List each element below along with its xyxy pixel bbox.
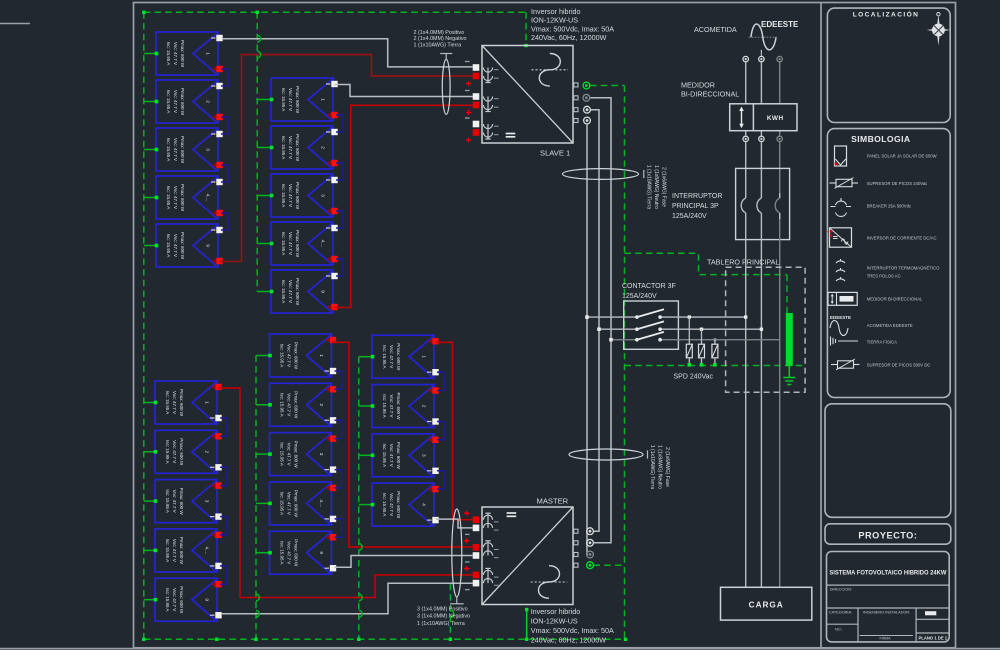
svg-text:Vmax: 500Vdc, Imax: 50A: Vmax: 500Vdc, Imax: 50A <box>531 24 614 33</box>
svg-text:Pmax: 600 W: Pmax: 600 W <box>180 232 185 260</box>
svg-text:BI-DIRECCIONAL: BI-DIRECCIONAL <box>681 90 739 99</box>
svg-text:Isc: 15.95 A: Isc: 15.95 A <box>166 234 171 258</box>
svg-text:+: + <box>826 230 828 234</box>
svg-text:ACOMETIDA: ACOMETIDA <box>694 25 737 34</box>
svg-text:Voc: 47.7 V: Voc: 47.7 V <box>288 136 293 159</box>
svg-text:Isc: 15.95 A: Isc: 15.95 A <box>281 88 286 112</box>
svg-text:Isc: 15.95 A: Isc: 15.95 A <box>165 440 170 464</box>
svg-text:SISTEMA FOTOVOLTAICO HIBRIDO 2: SISTEMA FOTOVOLTAICO HIBRIDO 24KW <box>829 570 947 577</box>
svg-text:3 (1x4.0MM) Positivo: 3 (1x4.0MM) Positivo <box>417 606 468 612</box>
svg-text:Pmax: 600 W: Pmax: 600 W <box>396 392 401 420</box>
svg-text:2: 2 <box>321 146 326 149</box>
svg-text:1 (1x8AWG) Neutro: 1 (1x8AWG) Neutro <box>653 165 659 209</box>
svg-text:Isc: 15.95 A: Isc: 15.95 A <box>166 186 171 210</box>
svg-text:Voc: 47.7 V: Voc: 47.7 V <box>288 88 293 111</box>
svg-text:Isc: 15.95 A: Isc: 15.95 A <box>280 393 285 417</box>
svg-text:Voc: 47.7 V: Voc: 47.7 V <box>389 345 394 368</box>
svg-text:1: 1 <box>319 354 324 357</box>
svg-text:LOCALIZACIÓN: LOCALIZACIÓN <box>853 10 920 19</box>
svg-text:Voc: 47.7 V: Voc: 47.7 V <box>172 440 177 463</box>
svg-text:Voc: 47.7 V: Voc: 47.7 V <box>173 138 178 161</box>
svg-text:4: 4 <box>422 503 427 506</box>
svg-text:Isc: 15.95 A: Isc: 15.95 A <box>281 280 286 304</box>
svg-text:Pmax: 600 W: Pmax: 600 W <box>295 230 300 258</box>
svg-text:Pmax: 600 W: Pmax: 600 W <box>179 438 184 466</box>
svg-text:Voc: 47.7 V: Voc: 47.7 V <box>172 539 177 562</box>
svg-text:2 (1x6AWG) Fase: 2 (1x6AWG) Fase <box>660 167 666 207</box>
svg-text:Vmax: 500Vdc, Imax: 50A: Vmax: 500Vdc, Imax: 50A <box>531 626 614 635</box>
svg-text:Pmax: 600 W: Pmax: 600 W <box>179 586 184 614</box>
svg-text:3 (1x4.0MM) Negativo: 3 (1x4.0MM) Negativo <box>417 614 470 620</box>
svg-text:Voc: 47.7 V: Voc: 47.7 V <box>288 232 293 255</box>
svg-text:Pmax: 600 W: Pmax: 600 W <box>179 389 184 417</box>
svg-text:Pmax: 600 W: Pmax: 600 W <box>295 86 300 114</box>
svg-text:Voc: 47.7 V: Voc: 47.7 V <box>173 234 178 257</box>
svg-text:Isc: 15.95 A: Isc: 15.95 A <box>281 136 286 160</box>
svg-text:Voc: 47.7 V: Voc: 47.7 V <box>288 280 293 303</box>
svg-text:EDEESTE: EDEESTE <box>830 315 851 320</box>
svg-text:Isc: 15.95 A: Isc: 15.95 A <box>382 345 387 369</box>
svg-text:Voc: 47.7 V: Voc: 47.7 V <box>287 344 292 367</box>
svg-text:Voc: 47.7 V: Voc: 47.7 V <box>287 541 292 564</box>
svg-text:PANEL SOLAR JA SOLAR DE 600W: PANEL SOLAR JA SOLAR DE 600W <box>867 154 937 159</box>
svg-text:4....: 4.... <box>319 499 324 507</box>
svg-text:Isc: 15.95 A: Isc: 15.95 A <box>166 42 171 66</box>
svg-text:Voc: 47.7 V: Voc: 47.7 V <box>389 394 394 417</box>
svg-text:Voc: 47.7 V: Voc: 47.7 V <box>172 490 177 513</box>
svg-text:DIRECCION:: DIRECCION: <box>830 588 852 592</box>
svg-text:1: 1 <box>422 355 427 358</box>
svg-text:3: 3 <box>422 454 427 457</box>
svg-text:TABLERO PRINCIPAL: TABLERO PRINCIPAL <box>707 258 779 267</box>
svg-text:Isc: 15.95 A: Isc: 15.95 A <box>280 442 285 466</box>
svg-text:NO.:: NO.: <box>835 627 843 631</box>
svg-text:2 (1x4.0MM) Negativo: 2 (1x4.0MM) Negativo <box>414 36 467 42</box>
svg-text:2: 2 <box>206 100 211 103</box>
svg-text:INGENIERO INSTALADOR:: INGENIERO INSTALADOR: <box>863 610 910 614</box>
svg-text:Pmax: 600 W: Pmax: 600 W <box>180 88 185 116</box>
svg-text:Isc: 15.95 A: Isc: 15.95 A <box>382 444 387 468</box>
svg-text:Isc: 15.95 A: Isc: 15.95 A <box>165 539 170 563</box>
svg-text:1: 1 <box>205 401 210 404</box>
svg-text:CONTACTOR 3F: CONTACTOR 3F <box>622 283 676 290</box>
svg-text:INTERRUPTOR TERMOMAGNÉTICO: INTERRUPTOR TERMOMAGNÉTICO <box>867 266 940 271</box>
svg-text:KWH: KWH <box>767 115 784 122</box>
svg-text:Isc: 15.95 A: Isc: 15.95 A <box>281 184 286 208</box>
svg-text:Voc: 47.7 V: Voc: 47.7 V <box>173 42 178 65</box>
svg-text:TRES POLOS AC: TRES POLOS AC <box>867 274 901 279</box>
svg-text:4....: 4.... <box>321 240 326 248</box>
svg-text:1 (1x10AWG) Tierra: 1 (1x10AWG) Tierra <box>645 165 651 209</box>
svg-text:Pmax: 600 W: Pmax: 600 W <box>295 182 300 210</box>
svg-text:CATEGORIA:: CATEGORIA: <box>829 610 852 614</box>
svg-text:PLANO 1 DE 1: PLANO 1 DE 1 <box>919 635 948 640</box>
svg-text:Isc: 15.95 A: Isc: 15.95 A <box>166 90 171 114</box>
svg-text:4....: 4.... <box>205 546 210 554</box>
svg-text:ACOMETIDA EDEESTE: ACOMETIDA EDEESTE <box>867 323 913 328</box>
svg-text:Inversor hibrido: Inversor hibrido <box>531 607 581 616</box>
svg-text:3: 3 <box>206 148 211 151</box>
svg-text:3: 3 <box>205 500 210 503</box>
svg-text:MASTER: MASTER <box>537 496 569 505</box>
svg-text:4....: 4.... <box>206 194 211 202</box>
svg-text:INTERRUPTOR: INTERRUPTOR <box>672 193 722 200</box>
svg-text:INVERSOR DE CORRIENTE DC/AC: INVERSOR DE CORRIENTE DC/AC <box>867 236 937 241</box>
svg-text:1 (1x8AWG) Neutro: 1 (1x8AWG) Neutro <box>656 445 662 489</box>
svg-text:2: 2 <box>422 405 427 408</box>
svg-text:Voc: 47.7 V: Voc: 47.7 V <box>173 186 178 209</box>
svg-text:FIRMA: FIRMA <box>880 637 892 641</box>
svg-text:1: 1 <box>321 98 326 101</box>
svg-text:Pmax: 600 W: Pmax: 600 W <box>180 136 185 164</box>
svg-text:240Vac, 60Hz, 12000W: 240Vac, 60Hz, 12000W <box>531 636 607 645</box>
svg-text:Pmax: 600 W: Pmax: 600 W <box>295 278 300 306</box>
svg-text:2 (1x4.0MM) Positivo: 2 (1x4.0MM) Positivo <box>414 30 465 36</box>
svg-text:9: 9 <box>206 244 211 247</box>
svg-text:1 (1x10AWG) Tierra: 1 (1x10AWG) Tierra <box>414 43 462 49</box>
svg-text:MEDIDOR BI-DIRECCIONAL: MEDIDOR BI-DIRECCIONAL <box>867 297 923 302</box>
svg-text:125A/240V: 125A/240V <box>622 293 657 300</box>
svg-text:Voc: 47.7 V: Voc: 47.7 V <box>173 90 178 113</box>
svg-text:Voc: 47.7 V: Voc: 47.7 V <box>288 184 293 207</box>
svg-text:Isc: 15.95 A: Isc: 15.95 A <box>165 391 170 415</box>
svg-text:SUPRESOR DE PICOS 500V DC: SUPRESOR DE PICOS 500V DC <box>867 363 931 368</box>
svg-text:Voc: 47.7 V: Voc: 47.7 V <box>172 588 177 611</box>
svg-text:Isc: 15.95 A: Isc: 15.95 A <box>382 493 387 517</box>
svg-text:Pmax: 600 W: Pmax: 600 W <box>180 40 185 68</box>
svg-text:1 (1x10AWG) Tierra: 1 (1x10AWG) Tierra <box>417 621 465 627</box>
svg-text:Voc: 47.7 V: Voc: 47.7 V <box>172 391 177 414</box>
svg-text:Pmax: 600 W: Pmax: 600 W <box>294 539 299 567</box>
svg-text:Pmax: 600 W: Pmax: 600 W <box>294 490 299 518</box>
svg-text:9: 9 <box>321 290 326 293</box>
svg-text:Voc: 47.7 V: Voc: 47.7 V <box>287 492 292 515</box>
svg-text:Isc: 15.95 A: Isc: 15.95 A <box>280 492 285 516</box>
svg-text:CARGA: CARGA <box>749 601 784 610</box>
svg-text:PROYECTO:: PROYECTO: <box>858 530 917 540</box>
svg-text:Pmax: 600 W: Pmax: 600 W <box>295 134 300 162</box>
svg-text:Pmax: 600 W: Pmax: 600 W <box>179 537 184 565</box>
svg-text:Pmax: 600 W: Pmax: 600 W <box>294 342 299 370</box>
svg-text:SUPRESOR DE PICOS 240Vac: SUPRESOR DE PICOS 240Vac <box>867 181 928 186</box>
svg-text:Pmax: 600 W: Pmax: 600 W <box>294 391 299 419</box>
svg-text:Voc: 47.7 V: Voc: 47.7 V <box>389 493 394 516</box>
svg-text:SPD 240Vac: SPD 240Vac <box>674 374 714 381</box>
svg-text:Pmax: 600 W: Pmax: 600 W <box>180 184 185 212</box>
svg-text:125A/240V: 125A/240V <box>672 213 707 220</box>
svg-text:Inversor hibrido: Inversor hibrido <box>531 7 581 16</box>
svg-text:Isc: 15.95 A: Isc: 15.95 A <box>165 588 170 612</box>
svg-text:Pmax: 600 W: Pmax: 600 W <box>396 343 401 371</box>
svg-text:9: 9 <box>319 551 324 554</box>
svg-text:9: 9 <box>205 598 210 601</box>
svg-text:ION-12KW-US: ION-12KW-US <box>531 16 578 25</box>
svg-text:1: 1 <box>206 52 211 55</box>
svg-text:240Vac, 60Hz, 12000W: 240Vac, 60Hz, 12000W <box>531 33 607 42</box>
svg-text:Pmax: 600 W: Pmax: 600 W <box>294 441 299 469</box>
svg-text:Pmax: 600 W: Pmax: 600 W <box>396 442 401 470</box>
svg-text:TIERRA FISICA: TIERRA FISICA <box>867 340 897 345</box>
svg-text:Pmax: 600 W: Pmax: 600 W <box>179 488 184 516</box>
svg-text:Isc: 15.95 A: Isc: 15.95 A <box>165 489 170 513</box>
svg-text:EDEESTE: EDEESTE <box>761 20 799 29</box>
svg-text:Voc: 47.7 V: Voc: 47.7 V <box>389 444 394 467</box>
svg-text:MEDIDOR: MEDIDOR <box>681 81 715 90</box>
svg-text:Isc: 15.95 A: Isc: 15.95 A <box>280 541 285 565</box>
svg-text:3: 3 <box>319 453 324 456</box>
svg-text:Pmax: 600 W: Pmax: 600 W <box>396 491 401 519</box>
svg-text:SLAVE 1: SLAVE 1 <box>540 148 570 157</box>
svg-text:SIMBOLOGIA: SIMBOLOGIA <box>851 134 910 144</box>
svg-text:Isc: 15.95 A: Isc: 15.95 A <box>166 138 171 162</box>
svg-text:Voc: 47.7 V: Voc: 47.7 V <box>287 443 292 466</box>
svg-text:Isc: 15.95 A: Isc: 15.95 A <box>382 394 387 418</box>
svg-text:BREAKER 25A 500Vdc: BREAKER 25A 500Vdc <box>867 204 912 209</box>
svg-text:1 (1x10AWG) Tierra: 1 (1x10AWG) Tierra <box>649 445 655 489</box>
svg-text:3: 3 <box>321 194 326 197</box>
svg-text:PRINCIPAL 3P: PRINCIPAL 3P <box>672 203 719 210</box>
svg-text:ION-12KW-US: ION-12KW-US <box>531 617 578 626</box>
svg-text:Voc: 47.7 V: Voc: 47.7 V <box>287 393 292 416</box>
svg-text:Isc: 15.95 A: Isc: 15.95 A <box>280 344 285 368</box>
svg-text:2: 2 <box>205 450 210 453</box>
svg-text:2 (1x6AWG) Fase: 2 (1x6AWG) Fase <box>664 447 670 487</box>
svg-text:Isc: 15.95 A: Isc: 15.95 A <box>281 232 286 256</box>
svg-text:2: 2 <box>319 403 324 406</box>
